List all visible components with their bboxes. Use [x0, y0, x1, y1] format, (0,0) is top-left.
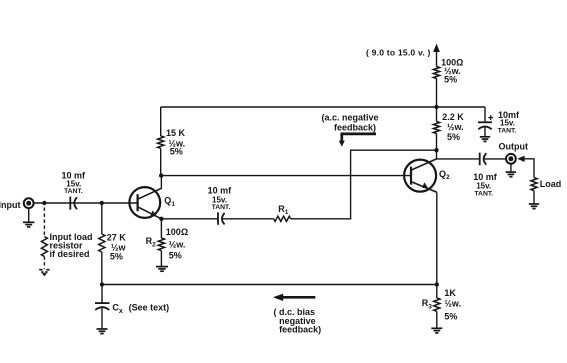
wire: load branch: [524, 159, 535, 178]
wire: input line to Q1 base: [34, 202, 138, 204]
svg-text:100Ω: 100Ω: [166, 227, 188, 237]
label: 10mf 15v. TANT. (bypass cap): [498, 110, 520, 134]
svg-text:10 mf: 10 mf: [473, 172, 498, 182]
ground: output jack: [506, 164, 516, 177]
resistor: 100Ω supply filter: [433, 67, 439, 108]
wire: cap to output jack: [484, 158, 506, 160]
label: 27K 1/2w 5%: [107, 232, 127, 261]
power: V+ terminal arrow: [433, 44, 440, 67]
svg-text:TANT.: TANT.: [474, 191, 493, 198]
svg-text:½w.: ½w.: [447, 122, 464, 132]
resistor: 27K bias: [99, 203, 105, 285]
svg-text:feedback): feedback): [334, 123, 376, 133]
wire: Q1 collector lead: [160, 176, 162, 189]
svg-text:5%: 5%: [444, 312, 457, 322]
wire: emitter node to feedback cap: [161, 218, 217, 220]
svg-text:½w.: ½w.: [444, 299, 461, 309]
ground: load: [529, 204, 539, 209]
wire: d.c. bias feedback run: [102, 284, 437, 286]
svg-text:5%: 5%: [447, 132, 460, 142]
svg-text:15 K: 15 K: [166, 128, 186, 138]
wire: dashed stub below optional resistor: [43, 257, 45, 270]
svg-text:R3: R3: [422, 298, 433, 310]
node: Cx / 27K / feedback junction: [100, 282, 104, 286]
wire: cap to R1: [222, 218, 274, 220]
label: (d.c. bias negative feedback): [274, 307, 322, 335]
transistor Q1: [129, 187, 161, 219]
label: 10 mf 15v. TANT. (feedback cap): [208, 186, 233, 211]
label: Input load resistor if desired: [50, 232, 93, 259]
node: R3 / d.c. feedback junction: [435, 282, 439, 286]
svg-text:5%: 5%: [110, 251, 123, 261]
svg-text:10 mf: 10 mf: [208, 186, 233, 196]
svg-text:(See text): (See text): [129, 302, 170, 312]
label: 2.2 K 1/2w. 5%: [442, 112, 464, 142]
label: 10 mf 15v. TANT. (output cap): [473, 172, 498, 198]
label: 100Ω 1/2w. 5% (supply): [441, 57, 463, 84]
node: Q1 collector junction: [159, 173, 163, 177]
svg-text:Load: Load: [540, 179, 562, 189]
svg-text:Cx: Cx: [112, 303, 123, 315]
svg-text:15v.: 15v.: [476, 182, 491, 191]
arrow: a.c. feedback direction: [339, 134, 376, 147]
svg-text:R2: R2: [146, 236, 157, 248]
wire: R1 to Q2 collector (a.c. feedback riser): [291, 150, 437, 219]
node: input / 27K junction: [100, 201, 104, 205]
svg-text:R1: R1: [278, 204, 289, 216]
label: 1K 1/2w. 5%: [444, 288, 461, 322]
ground: optional input load resistor (dashed): [39, 270, 49, 277]
ground: R3: [431, 328, 442, 333]
svg-text:½w.: ½w.: [169, 240, 186, 250]
transistor Q2: [404, 159, 437, 192]
ground: bypass cap: [480, 137, 490, 142]
svg-text:feedback): feedback): [279, 325, 321, 335]
svg-text:(a.c. negative: (a.c. negative: [322, 112, 379, 122]
resistor R1 a.c. feedback: [274, 216, 291, 221]
svg-text:TANT.: TANT.: [64, 188, 83, 195]
ground: Cx: [97, 329, 108, 334]
resistor R3 1K: [434, 285, 440, 329]
label: (a.c. negative feedback): [322, 112, 379, 132]
svg-text:Output: Output: [499, 141, 529, 151]
label: 15K 1/2w. 5%: [166, 128, 186, 157]
label: 100Ω 1/2w. 5% (R2): [166, 227, 188, 260]
label: Cx (See text): [112, 302, 169, 314]
node: supply rail junction: [434, 105, 438, 109]
svg-text:15v.: 15v.: [500, 119, 515, 128]
svg-text:Q1: Q1: [164, 196, 175, 208]
resistor: Load: [531, 178, 537, 204]
svg-text:27 K: 27 K: [107, 232, 127, 242]
node: Q1 emitter junction: [159, 217, 163, 221]
svg-text:TANT.: TANT.: [498, 127, 517, 134]
wire: Q2 collector lead: [436, 150, 438, 159]
capacitor: input coupling 10mf: [70, 197, 77, 210]
svg-text:Q2: Q2: [439, 169, 450, 181]
resistor: input load resistor (optional, dashed): [41, 237, 47, 257]
input jack J1: [24, 198, 34, 208]
capacitor: Cx: [95, 285, 110, 329]
resistor R2 100Ω Q1 emitter: [158, 219, 164, 266]
ground: R2: [156, 267, 168, 272]
wire: output line from collector: [437, 158, 480, 160]
arrow: d.c. feedback direction: [273, 294, 315, 301]
wire: top supply rail: [161, 106, 485, 108]
svg-text:2.2 K: 2.2 K: [442, 112, 464, 122]
svg-text:1K: 1K: [444, 288, 456, 298]
svg-text:5%: 5%: [444, 75, 457, 85]
resistor: 2.2K Q2 collector load: [433, 107, 439, 150]
capacitor: 10mf output coupling: [480, 153, 487, 166]
svg-text:if desired: if desired: [50, 249, 90, 259]
wire: interstage Q1 collector to Q2 base: [161, 175, 411, 177]
capacitor: 10mf supply bypass: [478, 107, 492, 137]
node: optional load resistor tap: [42, 201, 46, 205]
node: Q2 collector node: [434, 148, 438, 152]
svg-text:TANT.: TANT.: [212, 204, 231, 211]
wire: dashed stub to optional input load resistor: [43, 208, 45, 237]
label: 10 mf 15v. TANT. (input cap): [62, 171, 87, 196]
svg-text:( 9.0 to 15.0 v. ): ( 9.0 to 15.0 v. ): [366, 47, 431, 57]
output jack: [506, 154, 516, 164]
label: + (bypass cap polarity): [488, 115, 493, 120]
capacitor: 10mf a.c. feedback: [218, 212, 225, 224]
svg-text:Input: Input: [0, 200, 21, 210]
arrow: output to load: [517, 156, 524, 162]
resistor: 15K Q1 collector load: [158, 107, 164, 176]
ground: input jack: [23, 208, 34, 227]
svg-text:5%: 5%: [170, 147, 183, 157]
svg-text:5%: 5%: [169, 250, 182, 260]
wire: Q2 emitter drop: [436, 192, 438, 284]
